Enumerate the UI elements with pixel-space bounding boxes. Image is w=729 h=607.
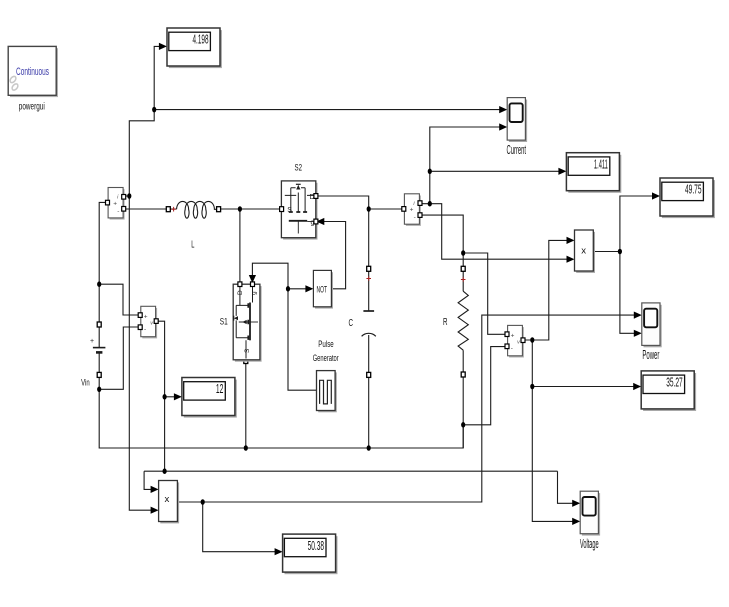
svg-text:x: x [581,246,586,256]
svg-text:Generator: Generator [313,353,339,363]
svg-text:L: L [191,240,194,251]
svg-text:S: S [287,207,292,214]
svg-text:Pulse: Pulse [318,339,333,349]
svg-text:S: S [244,348,251,353]
svg-text:12: 12 [216,381,224,396]
svg-text:Current: Current [507,142,527,157]
svg-text:S1: S1 [220,317,228,327]
svg-text:50.38: 50.38 [308,538,325,553]
svg-text:x: x [165,494,170,504]
svg-text:Voltage: Voltage [580,536,599,551]
svg-text:49.75: 49.75 [685,182,702,197]
svg-text:C: C [349,318,354,329]
svg-text:Power: Power [642,347,659,362]
svg-text:4.198: 4.198 [193,32,209,47]
svg-text:35.27: 35.27 [666,375,683,390]
svg-text:S2: S2 [295,163,303,173]
svg-text:NOT: NOT [317,284,328,294]
svg-text:powergui: powergui [19,101,45,113]
svg-text:R: R [443,317,448,328]
svg-text:Continuous: Continuous [16,66,49,78]
svg-text:Vin: Vin [81,377,90,388]
svg-text:+: + [90,338,94,345]
svg-text:D: D [237,290,244,295]
svg-text:1.411: 1.411 [594,156,608,171]
svg-text:g: g [251,291,258,295]
